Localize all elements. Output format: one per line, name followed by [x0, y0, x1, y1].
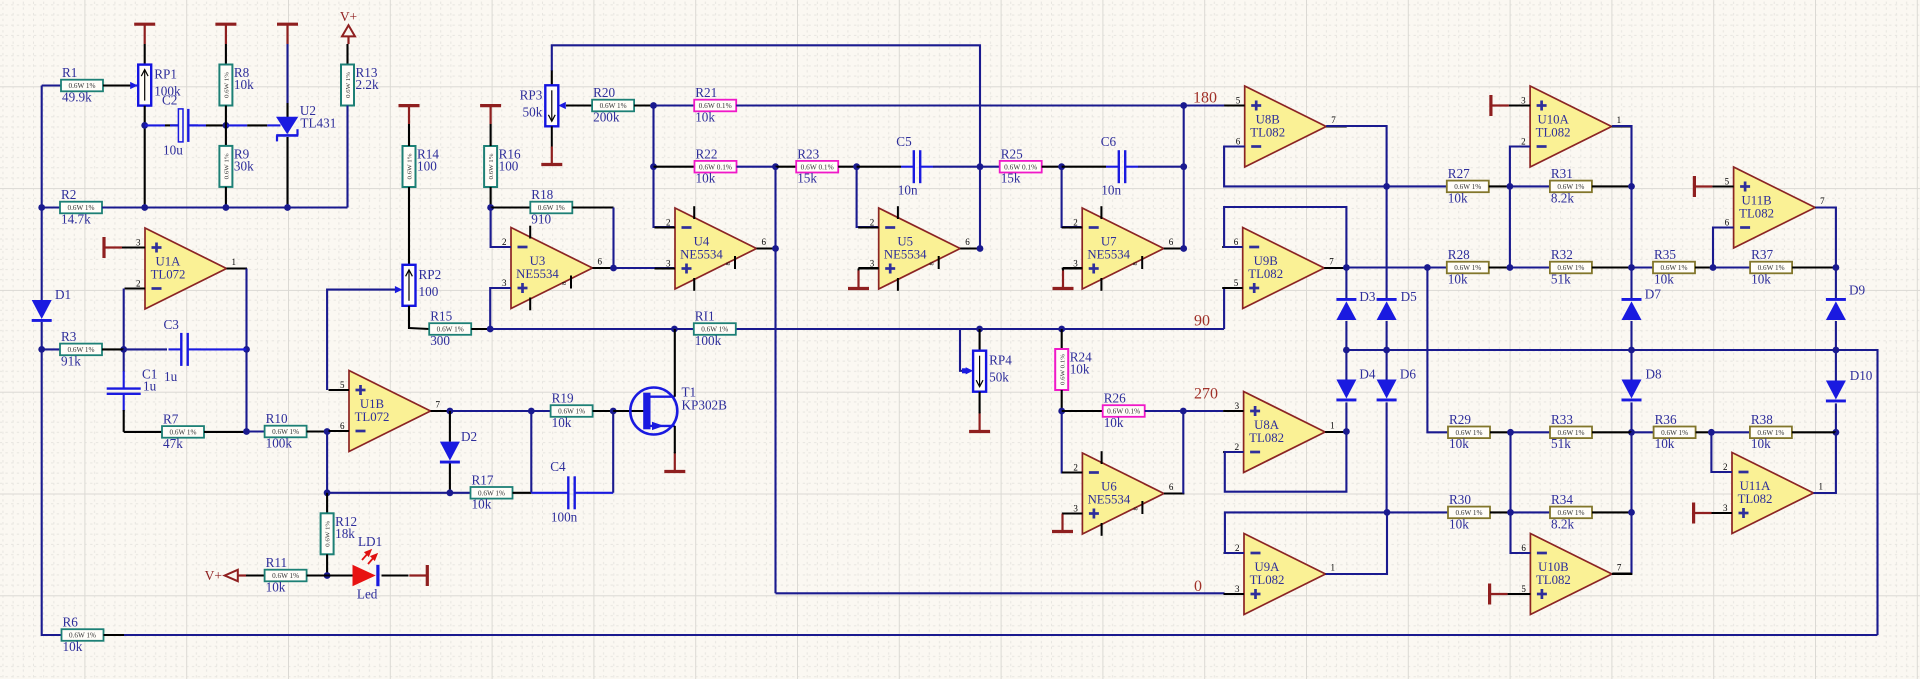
resistor R15: [429, 309, 471, 348]
svg-text:R37: R37: [1751, 247, 1773, 262]
svg-text:2.2k: 2.2k: [356, 77, 379, 92]
svg-text:5: 5: [340, 380, 345, 390]
svg-text:6: 6: [762, 237, 767, 247]
svg-text:R10: R10: [266, 411, 288, 426]
wire R18 down to U3 out: [612, 208, 614, 269]
wire U6 pin3 stub: [1063, 512, 1083, 514]
wire R13 to R2 line: [346, 106, 348, 208]
op-amp U5: [858, 206, 981, 291]
potentiometer RP3: [520, 85, 559, 126]
svg-text:49.9k: 49.9k: [62, 89, 92, 104]
svg-text:R22: R22: [696, 146, 718, 161]
junction R2 / U2: [284, 204, 291, 211]
diode D3: [1336, 289, 1376, 320]
wire U11A out riser: [1814, 432, 1836, 493]
svg-text:50k: 50k: [523, 104, 543, 119]
wire U4 out: [776, 247, 778, 249]
svg-text:TL082: TL082: [1250, 573, 1285, 587]
junction D2 / R17: [447, 489, 454, 496]
svg-text:R28: R28: [1448, 247, 1470, 262]
resistor R18: [530, 187, 572, 226]
op-amp U1A: [125, 228, 248, 309]
wire R1 to RP1 wiper: [103, 84, 132, 86]
wire U3 pin2 riser: [491, 208, 511, 248]
svg-text:R11: R11: [266, 555, 288, 570]
junction U9B out / R28 / D3 column: [1343, 264, 1350, 271]
net label 180: [1193, 90, 1217, 107]
svg-text:7: 7: [1331, 115, 1336, 125]
wire to R38: [1711, 431, 1750, 433]
svg-text:51k: 51k: [1551, 436, 1571, 451]
wire C1 top: [123, 349, 125, 372]
svg-text:10k: 10k: [1104, 415, 1124, 430]
wire R10 to U1B pin6: [307, 430, 329, 432]
svg-text:2: 2: [1073, 218, 1078, 228]
junction R35 / R37 / U11B pin6: [1710, 264, 1717, 271]
junction R2 / RP1 column: [141, 204, 148, 211]
svg-text:2: 2: [1235, 543, 1240, 553]
junction D3-D4 / 350 line: [1343, 347, 1350, 354]
svg-text:D5: D5: [1401, 289, 1418, 304]
resistor R32: [1550, 247, 1592, 286]
wire R28 to R29 riser: [1427, 268, 1448, 433]
resistor R28: [1447, 247, 1489, 286]
junction U3 out / R18: [610, 265, 617, 272]
svg-text:10k: 10k: [1654, 271, 1674, 286]
wire U8A pin2 loop: [1225, 432, 1347, 492]
wire R1 left: [42, 84, 61, 86]
svg-text:TL082: TL082: [1739, 206, 1774, 220]
svg-text:D3: D3: [1359, 289, 1376, 304]
svg-text:TL082: TL082: [1536, 573, 1571, 587]
op-amp U11B: [1713, 167, 1836, 248]
resistor R29: [1448, 412, 1490, 451]
svg-text:3: 3: [1235, 584, 1240, 594]
wire U10A pin2 riser: [1510, 147, 1530, 187]
wire U1A pin2 riser: [123, 289, 125, 350]
svg-text:RP3: RP3: [520, 87, 543, 102]
power bar U7 pin3 supply: [1053, 269, 1074, 289]
wire to R10: [247, 430, 265, 432]
svg-text:NE5534: NE5534: [1087, 247, 1130, 261]
capacitor C1: [107, 367, 158, 412]
svg-text:5: 5: [1725, 177, 1730, 187]
svg-text:TL082: TL082: [1249, 431, 1284, 445]
svg-text:R25: R25: [1001, 146, 1023, 161]
svg-text:10u: 10u: [163, 143, 183, 158]
wire to R25: [980, 166, 1000, 168]
wire R37 junction to D9: [1835, 268, 1837, 299]
wire D8 down: [1630, 402, 1632, 432]
svg-text:10k: 10k: [266, 579, 286, 594]
svg-text:8.2k: 8.2k: [1551, 516, 1574, 531]
wire to R12: [326, 493, 328, 514]
svg-text:2: 2: [1723, 462, 1728, 472]
svg-text:D4: D4: [1359, 367, 1376, 382]
svg-text:R26: R26: [1104, 391, 1126, 406]
wire R18 left: [491, 206, 531, 208]
potentiometer RP1: [138, 65, 181, 106]
wire U11A pin2 riser: [1711, 432, 1732, 472]
power bar above R14: [399, 106, 420, 124]
wire to R31: [1510, 185, 1550, 187]
potentiometer RP4: [973, 351, 1012, 392]
svg-text:0.6W 1%: 0.6W 1%: [407, 153, 414, 180]
svg-text:C5: C5: [896, 134, 912, 149]
op-amp U11A: [1712, 453, 1835, 534]
wire U5 pin2 riser: [857, 167, 879, 227]
junction R28 / R29 riser: [1424, 264, 1431, 271]
wire to R35: [1632, 266, 1654, 268]
svg-text:10k: 10k: [63, 639, 83, 654]
wire R26 right: [1145, 410, 1184, 412]
wire R37 right: [1792, 266, 1836, 268]
svg-text:200k: 200k: [593, 109, 620, 124]
junction RI1 / T1 drain: [671, 326, 678, 333]
power bar below RP4: [969, 412, 990, 432]
resistor R23: [796, 146, 838, 185]
svg-text:1u: 1u: [143, 379, 157, 394]
wire C2 left black: [165, 124, 178, 126]
wire C2 to U2 black: [247, 124, 267, 126]
junction R34 / U10B out riser: [1628, 509, 1635, 516]
svg-text:6: 6: [340, 421, 345, 431]
power bar below RP3: [541, 126, 562, 164]
svg-text:R18: R18: [531, 187, 553, 202]
LED LD1: [353, 534, 383, 602]
svg-text:7: 7: [436, 400, 441, 410]
wire C4 right: [587, 492, 613, 494]
wiper arrow RP1: [130, 82, 138, 89]
resistor R1: [61, 65, 103, 104]
wire left bus vertical lower: [42, 322, 62, 635]
svg-text:0.6W 1%: 0.6W 1%: [345, 71, 352, 98]
svg-text:R1: R1: [62, 65, 77, 80]
junction U9A out / R30 / D6 column: [1384, 509, 1391, 516]
svg-text:100n: 100n: [551, 510, 578, 525]
junction R28 / R32 / U10A riser: [1507, 264, 1514, 271]
wire U11B out riser: [1816, 208, 1836, 268]
wire RP3 top stem: [551, 70, 553, 85]
wire U1B out to R19: [450, 410, 531, 412]
junction R3 / C1 / U1A pin2: [120, 346, 127, 353]
svg-text:50k: 50k: [989, 370, 1009, 385]
power symbol V+ left: [205, 568, 246, 583]
junction R36 / R38 / U11A pin2: [1708, 429, 1715, 436]
wire R16 top: [490, 124, 492, 146]
junction R15 / U3 pin3: [487, 326, 494, 333]
wire R25 right: [1042, 166, 1062, 168]
svg-text:1: 1: [1330, 421, 1335, 431]
svg-text:18k: 18k: [335, 526, 355, 541]
junction R3 left: [38, 346, 45, 353]
svg-text:8: 8: [929, 262, 936, 265]
wire R30 right: [1490, 511, 1511, 513]
wire R11 right: [307, 574, 328, 576]
net label 270: [1194, 386, 1218, 403]
svg-text:D6: D6: [1400, 367, 1417, 382]
power symbol U10B pin5 supply: [1490, 584, 1508, 605]
resistor R25: [1000, 146, 1042, 185]
wire power to RP1: [144, 44, 146, 65]
wire V+ to R13: [346, 44, 348, 65]
wire to D2: [449, 411, 451, 442]
svg-text:C2: C2: [162, 93, 177, 108]
power bar above R16: [480, 106, 501, 124]
potentiometer RP2: [403, 265, 442, 306]
net label 90: [1194, 313, 1210, 330]
wire 350 to D8: [1630, 350, 1632, 380]
resistor R20: [592, 85, 634, 124]
junction C3 right / output riser: [243, 346, 250, 353]
junction R12 / R11 / LED: [324, 572, 331, 579]
svg-text:270: 270: [1194, 386, 1218, 403]
svg-text:2: 2: [666, 218, 671, 228]
wire to R21: [654, 104, 695, 106]
svg-text:10n: 10n: [1101, 183, 1121, 198]
svg-text:D10: D10: [1850, 368, 1873, 383]
wire C4 left lead: [531, 492, 556, 494]
wire 90 line: [490, 328, 1224, 330]
junction U8A out / D4 column: [1343, 428, 1350, 435]
svg-text:V+: V+: [205, 568, 222, 583]
svg-text:10k: 10k: [695, 109, 715, 124]
resistor R36: [1654, 412, 1696, 451]
op-amp U8A: [1223, 392, 1346, 473]
svg-text:0.6W 1%: 0.6W 1%: [224, 153, 231, 180]
resistor R3: [60, 329, 102, 368]
wire R14 top: [408, 124, 410, 146]
junction U4 out: [772, 245, 779, 252]
svg-text:10k: 10k: [1448, 271, 1468, 286]
wire R15 right: [471, 328, 490, 330]
svg-text:D1: D1: [55, 287, 71, 302]
svg-text:6: 6: [1169, 237, 1174, 247]
svg-text:R17: R17: [472, 473, 494, 488]
svg-text:6: 6: [1234, 237, 1239, 247]
junction R22 / R23 / U4 out riser: [772, 163, 779, 170]
wire C5 right: [933, 166, 980, 168]
svg-text:NE5534: NE5534: [884, 247, 927, 261]
wire U1A output down: [245, 269, 247, 432]
svg-text:100: 100: [499, 159, 519, 174]
svg-text:3: 3: [1723, 503, 1728, 513]
wire R8 to junction: [225, 106, 227, 126]
svg-text:D2: D2: [461, 429, 477, 444]
svg-text:0: 0: [1194, 578, 1202, 595]
wire R23 right: [838, 166, 856, 168]
svg-text:7: 7: [1617, 563, 1622, 573]
wire 350 to D10: [1835, 350, 1837, 381]
wire to R33: [1511, 431, 1551, 433]
wire U2 ref blue: [267, 124, 280, 126]
wire U2 cathode to R2 line: [286, 137, 288, 208]
power symbol U1A pin3 supply: [104, 237, 122, 258]
resistor R31: [1550, 166, 1592, 205]
svg-text:100: 100: [417, 159, 437, 174]
wire to R19 box: [531, 410, 550, 412]
wire RP4 top: [979, 329, 981, 351]
svg-text:TL082: TL082: [1536, 125, 1571, 139]
resistor R38: [1750, 412, 1792, 451]
svg-text:8: 8: [561, 282, 568, 285]
diode D4: [1336, 367, 1376, 402]
wire U10B out riser: [1630, 512, 1632, 573]
diode D7: [1622, 287, 1662, 321]
diode D2: [440, 429, 477, 464]
junction R20 / R21 / R22 riser: [650, 102, 657, 109]
wire to U2 anode: [286, 103, 288, 118]
wire R16 bottom: [490, 187, 492, 208]
svg-text:R32: R32: [1551, 247, 1573, 262]
op-amp U3: [491, 226, 614, 311]
wire R32 right: [1592, 266, 1632, 268]
wire U6 out riser: [1182, 411, 1184, 494]
resistor RI1: [694, 309, 736, 348]
junction R22 left: [650, 163, 657, 170]
resistor R30: [1448, 492, 1490, 531]
wire to R32: [1510, 266, 1550, 268]
svg-text:10k: 10k: [1751, 271, 1771, 286]
wire R35 right: [1695, 266, 1713, 268]
wire D8 column lower: [1630, 432, 1632, 512]
wire power to R8: [225, 44, 227, 65]
svg-text:3: 3: [1521, 96, 1526, 106]
junction 90 / RP4: [976, 326, 983, 333]
wire U10B pin5 black: [1508, 593, 1531, 595]
wire 90 to U9B pin5: [1224, 288, 1243, 329]
resistor R37: [1750, 247, 1792, 286]
junction R19 / T1 gate / C4: [610, 408, 617, 415]
wire U10A pin3 black: [1509, 104, 1530, 106]
diode D5: [1377, 289, 1418, 320]
wire RP2 bottom stem: [408, 306, 410, 329]
resistor R14: [403, 146, 440, 187]
wire C1 bottom: [123, 410, 125, 432]
junction D5-D6 / 350 line: [1383, 347, 1390, 354]
wire R2 left: [42, 206, 60, 208]
wire to R36: [1632, 431, 1654, 433]
resistor R9: [219, 146, 254, 187]
wire T1 gate: [613, 410, 643, 412]
resistor R34: [1550, 492, 1592, 531]
op-amp U1B: [329, 371, 452, 452]
wire C4 left riser: [530, 411, 532, 493]
junction R16 / R18 / U3 pin2: [487, 204, 494, 211]
power bar above RP1: [134, 24, 155, 44]
junction R29 / R33: [1507, 429, 1514, 436]
svg-text:R33: R33: [1551, 412, 1573, 427]
junction U1B output / D2: [447, 408, 454, 415]
svg-text:TL082: TL082: [1250, 125, 1285, 139]
svg-text:0.6W 1%: 0.6W 1%: [488, 153, 495, 180]
svg-text:Led: Led: [357, 587, 378, 602]
svg-text:V+: V+: [340, 9, 357, 24]
svg-text:R21: R21: [695, 85, 717, 100]
junction D10 / R38 / U11A out: [1833, 429, 1840, 436]
svg-text:D8: D8: [1646, 367, 1663, 382]
resistor R27: [1447, 166, 1489, 205]
wire to R26: [1062, 410, 1103, 412]
resistor R21: [694, 85, 736, 124]
svg-text:R35: R35: [1654, 247, 1676, 262]
wire 350 line: [1346, 350, 1877, 635]
wire R22 riser to U4 pin2: [654, 167, 676, 227]
wire top feedback: [552, 45, 980, 166]
resistor R26: [1103, 391, 1145, 430]
junction R25 / C6 / U7 pin2: [1058, 163, 1065, 170]
wire R14 to RP2: [408, 187, 410, 265]
wire R29-R30 riser: [1509, 432, 1511, 512]
power bar U6 pin3 supply: [1052, 514, 1073, 532]
op-amp U10B: [1510, 534, 1633, 615]
wire U9B out to D3: [1345, 268, 1347, 299]
svg-text:R38: R38: [1751, 412, 1773, 427]
wire RP1 bottom to R2 line: [144, 106, 146, 208]
resistor R2: [60, 187, 102, 226]
wire U9B pin6 loop: [1224, 207, 1346, 268]
resistor R7: [162, 412, 204, 451]
wire U7 out riser: [1183, 106, 1185, 249]
svg-text:7: 7: [1329, 257, 1334, 267]
wire 180 line: [736, 104, 1183, 106]
wire RP4 bottom: [979, 392, 981, 413]
svg-text:RP1: RP1: [154, 67, 177, 82]
wire C3 right: [200, 348, 247, 350]
wire R17 line left: [327, 492, 470, 494]
wire U3 out to U4 pin3: [614, 267, 676, 269]
svg-text:2: 2: [502, 237, 507, 247]
resistor R24: [1055, 349, 1092, 390]
wire R33 right: [1592, 431, 1632, 433]
wiper arrow RP3: [558, 102, 566, 109]
wire 270 to U8A pin3: [1183, 410, 1223, 412]
junction R31 / U10A out / D7 column: [1628, 183, 1635, 190]
svg-text:R27: R27: [1448, 166, 1470, 181]
junction R7 / output riser: [243, 428, 250, 435]
power symbol U11A pin3 supply: [1694, 503, 1712, 524]
svg-text:3: 3: [502, 278, 507, 288]
resistor R13: [341, 65, 379, 106]
svg-text:10k: 10k: [472, 497, 492, 512]
wire R19 right: [593, 410, 614, 412]
svg-text:10k: 10k: [1448, 190, 1468, 205]
wire U10A out riser: [1612, 126, 1631, 186]
power symbol U10A pin3 supply: [1491, 95, 1509, 116]
junction R27 / R31 / U10A pin2: [1507, 183, 1514, 190]
svg-text:RP2: RP2: [419, 267, 442, 282]
wire U1B pin5 riser: [327, 290, 396, 390]
junction R24 / R26 / U6: [1058, 408, 1065, 415]
svg-text:10k: 10k: [1070, 362, 1090, 377]
wire U1B pin6 down: [326, 432, 328, 493]
svg-text:100k: 100k: [266, 435, 293, 450]
svg-text:6: 6: [598, 257, 603, 267]
junction C6 / U7 out riser: [1180, 163, 1187, 170]
wire U5 out riser: [979, 167, 981, 249]
power symbol V+ top: [340, 9, 357, 44]
wire left bus vertical: [41, 86, 43, 301]
wire C2 to U2 blue: [226, 124, 247, 126]
svg-text:2: 2: [1521, 137, 1526, 147]
svg-text:6: 6: [1521, 543, 1526, 553]
svg-text:0.6W 1%: 0.6W 1%: [325, 520, 332, 547]
wire U4 out to 0 line: [774, 167, 776, 594]
junction R26 / U6 out riser: [1180, 408, 1187, 415]
junction 90 / R24: [1058, 326, 1065, 333]
wire R20 right: [634, 104, 653, 106]
wire D7 to 350 line: [1630, 321, 1632, 350]
